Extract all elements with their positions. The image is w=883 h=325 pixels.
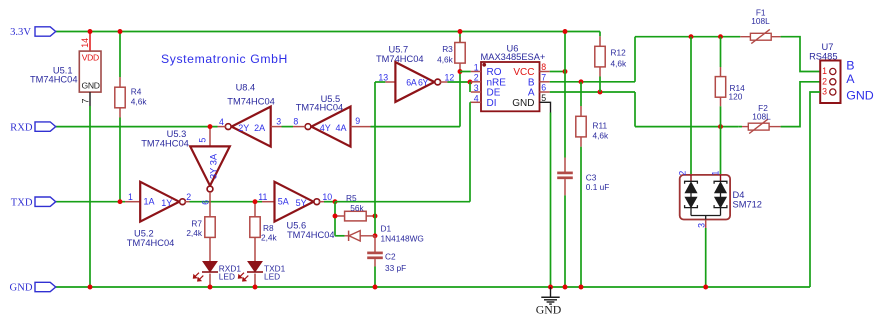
inverter U5.2 pin 2: [184, 201, 189, 203]
svg-text:1: 1: [474, 62, 479, 72]
wire R12 to A row: [599, 77, 601, 93]
resistor R4: [115, 87, 125, 108]
inverter U5.3 pin 6 to R7: [209, 192, 211, 217]
svg-text:C3: C3: [586, 172, 597, 182]
svg-text:2: 2: [186, 192, 191, 202]
wire A bottom line: [635, 126, 738, 128]
wire GND rail: [56, 286, 810, 288]
U6 pin 1 RO: [471, 71, 481, 73]
D4 common cathode bracket: [691, 215, 721, 217]
wire F1 to U7 pin1: [781, 37, 821, 72]
resistor R4 pins: [119, 77, 121, 87]
svg-text:U7: U7: [822, 42, 834, 52]
svg-text:6: 6: [200, 200, 210, 205]
capacitor C3: [557, 172, 573, 175]
inverter U5.6 pin 10: [319, 201, 324, 203]
svg-text:13: 13: [378, 73, 388, 83]
TVS diode pair at x=720.5: [714, 181, 727, 184]
svg-text:A: A: [846, 72, 855, 86]
wire R14 top: [720, 37, 722, 67]
resistor R11 pins: [580, 82, 582, 106]
port RXD: [35, 122, 56, 131]
wire U7 pin3 to GND rail: [810, 92, 820, 287]
resistor R5: [345, 211, 367, 221]
connector U7 box: [820, 61, 840, 104]
svg-text:R11: R11: [593, 120, 608, 130]
wire B row: [550, 81, 635, 83]
svg-text:2A: 2A: [254, 123, 265, 133]
U7 pin 3: [830, 89, 836, 95]
svg-text:LED: LED: [264, 272, 280, 282]
svg-text:4Y: 4Y: [320, 123, 331, 133]
svg-text:12: 12: [445, 73, 455, 83]
svg-text:U5.7: U5.7: [389, 44, 409, 54]
resistor R12 pins: [599, 32, 601, 37]
svg-text:9: 9: [355, 116, 360, 126]
resistor R7: [205, 217, 215, 238]
svg-text:0.1 uF: 0.1 uF: [586, 182, 610, 192]
U6 pin 8 VCC: [540, 71, 550, 73]
svg-text:C2: C2: [385, 251, 396, 261]
TVS diode pair at x=691: [685, 181, 698, 184]
svg-text:D4: D4: [733, 190, 745, 200]
inverter U5.3 (points down): [190, 146, 230, 185]
diode D1: [335, 235, 345, 237]
svg-text:5: 5: [541, 93, 546, 103]
port TXD: [35, 197, 56, 206]
power symbol U5.1 pin 7 GND: [89, 92, 91, 106]
svg-text:4A: 4A: [336, 123, 347, 133]
resistor R8: [250, 217, 260, 238]
wire C3 to GND: [564, 179, 566, 195]
svg-text:1: 1: [128, 192, 133, 202]
svg-text:VDD: VDD: [82, 53, 99, 63]
U6 pin 4 DI: [471, 101, 481, 103]
svg-text:1Y: 1Y: [161, 198, 172, 208]
svg-text:6: 6: [541, 83, 546, 93]
power symbol U5.1 body: [79, 51, 101, 92]
svg-text:4,6k: 4,6k: [131, 97, 148, 107]
svg-text:108L: 108L: [752, 112, 771, 122]
svg-text:TM74HC04: TM74HC04: [127, 238, 175, 248]
wire R11 to GND: [580, 147, 582, 287]
svg-text:11: 11: [258, 192, 267, 202]
svg-text:MAX3485ESA+: MAX3485ESA+: [481, 52, 546, 62]
capacitor C2 pin: [374, 236, 376, 253]
resistor R5 pins: [335, 215, 345, 217]
U6 pin 2 nRE: [471, 81, 481, 83]
svg-text:GND: GND: [82, 80, 100, 90]
wire A row: [550, 91, 635, 93]
wire D4 pin3 to GND: [705, 228, 707, 287]
wire U8.4 to U5.5: [282, 126, 294, 128]
wire U5.6 out to junction: [324, 201, 335, 203]
svg-text:R3: R3: [442, 44, 453, 54]
inverter U5.7 pin 12: [440, 81, 448, 83]
U6 pin 7 B: [540, 81, 550, 83]
wire U5.6out down to R5: [334, 202, 336, 236]
TVS D4 box: [680, 175, 730, 220]
fuse F2: [738, 126, 742, 128]
wire 3.3V rail: [56, 31, 600, 33]
svg-text:2Y: 2Y: [238, 123, 249, 133]
inverter U5.2: [140, 182, 179, 222]
resistor R7 to LED: [209, 237, 211, 261]
wire R4 to TXD: [119, 118, 121, 202]
wire D4 pin1 column: [720, 127, 722, 175]
wire LED RXD1 to GND: [209, 274, 211, 288]
wire VCC to 3.3V column: [550, 71, 565, 73]
wire U5.1 GND to rail: [89, 106, 91, 287]
svg-text:R12: R12: [611, 48, 627, 58]
svg-text:4,6k: 4,6k: [611, 58, 628, 68]
inverter U5.7 pin 13: [385, 81, 395, 83]
svg-text:R4: R4: [131, 86, 142, 96]
wire TXDD junction to DI corner: [335, 201, 470, 203]
wire R5 right column: [374, 82, 376, 216]
svg-text:TM74HC04: TM74HC04: [227, 97, 275, 107]
svg-text:LED: LED: [219, 272, 235, 282]
wire C2 to GND: [374, 259, 376, 266]
junction R3-RO: [458, 69, 463, 74]
inverter U5.5 pin 8: [293, 126, 306, 128]
svg-text:14: 14: [80, 38, 90, 48]
IC U6 box: [481, 62, 540, 111]
inverter U5.6 pin 11: [262, 201, 275, 203]
capacitor C2: [367, 252, 383, 255]
wire A to bottom line: [634, 92, 636, 127]
wire 3.3V to R4: [119, 32, 121, 78]
svg-text:TM74HC04: TM74HC04: [376, 54, 424, 64]
svg-text:TM74HC04: TM74HC04: [141, 139, 189, 149]
svg-text:7: 7: [541, 72, 546, 82]
wire DI down to TXDD net: [469, 101, 472, 103]
svg-text:4: 4: [219, 117, 224, 127]
svg-text:Systematronic GmbH: Systematronic GmbH: [161, 52, 288, 66]
svg-text:2: 2: [474, 73, 479, 83]
wire B to top line: [634, 37, 636, 82]
LED RXD1: [203, 262, 217, 272]
svg-text:U8.4: U8.4: [236, 82, 256, 92]
inverter U8.4 (points left): [232, 107, 271, 147]
svg-text:TM74HC04: TM74HC04: [287, 230, 335, 240]
resistor R8 pin: [254, 202, 256, 217]
svg-text:1: 1: [711, 171, 721, 176]
inverter U8.4 pin 3: [271, 126, 282, 128]
svg-text:4: 4: [474, 93, 479, 103]
U7 pin 2: [830, 79, 836, 85]
resistor R8 to LED: [254, 237, 256, 261]
wire U5.7 out to nRE: [448, 81, 472, 83]
svg-text:GND: GND: [512, 98, 534, 109]
svg-text:108L: 108L: [751, 16, 770, 26]
svg-text:1A: 1A: [144, 197, 155, 207]
svg-text:3: 3: [696, 223, 706, 228]
junction 3.3V at x90: [88, 29, 93, 34]
svg-text:2,4k: 2,4k: [186, 228, 203, 238]
svg-text:GND: GND: [536, 303, 562, 317]
wire pin9 to R3 column: [371, 126, 461, 128]
svg-text:RXD: RXD: [10, 122, 33, 133]
resistor R11: [576, 116, 586, 137]
svg-text:33 pF: 33 pF: [385, 263, 406, 273]
wire RXD: [56, 126, 218, 128]
svg-text:GND: GND: [10, 283, 33, 294]
fuse F1: [740, 36, 750, 38]
svg-text:TM74HC04: TM74HC04: [30, 75, 78, 85]
svg-text:B: B: [846, 59, 854, 73]
U6 pin 6 A: [540, 91, 550, 93]
wire U5.7 input from RC node: [375, 81, 385, 83]
power symbol U5.1 pin 14 VDD: [89, 32, 91, 52]
svg-text:GND: GND: [846, 89, 874, 103]
svg-text:4,6k: 4,6k: [593, 131, 610, 141]
wire U5.2 out: [190, 201, 263, 203]
svg-text:RS485: RS485: [809, 52, 837, 62]
capacitor C3 pin top: [564, 158, 566, 173]
inverter U5.5 pin 9: [351, 126, 371, 128]
svg-text:R5: R5: [346, 193, 357, 203]
wire nRE-DE tie: [469, 82, 471, 92]
svg-text:2,4k: 2,4k: [261, 232, 278, 242]
svg-text:5Y: 5Y: [296, 198, 307, 208]
inverter U5.5 (points left): [311, 107, 350, 147]
resistor R3 pins: [459, 32, 461, 43]
svg-text:3: 3: [822, 87, 827, 97]
wire LED TXD1 to GND: [254, 274, 256, 288]
wire TXD: [56, 201, 125, 203]
svg-text:3: 3: [276, 116, 281, 126]
svg-text:DI: DI: [487, 98, 497, 109]
port GND: [35, 282, 56, 291]
svg-text:3Y 3A: 3Y 3A: [209, 153, 219, 179]
ground symbol: [550, 287, 552, 297]
junction R5 right: [373, 214, 378, 219]
resistor R12: [595, 46, 605, 67]
svg-text:56k: 56k: [350, 203, 364, 213]
svg-text:SM712: SM712: [733, 200, 762, 210]
svg-text:3.3V: 3.3V: [10, 27, 31, 38]
svg-text:8: 8: [293, 116, 298, 126]
wire B top line: [635, 36, 740, 38]
LED TXD1: [248, 262, 262, 272]
svg-text:120: 120: [729, 91, 743, 101]
wire F2 to U7 pin2: [781, 82, 821, 127]
U7 pin 1: [830, 68, 836, 74]
svg-text:1: 1: [822, 66, 827, 76]
svg-text:2: 2: [822, 77, 827, 87]
svg-text:2: 2: [678, 171, 688, 176]
U6 pin 3 DE: [471, 91, 481, 93]
wire D4 pin2 column: [690, 37, 692, 175]
svg-text:10: 10: [322, 192, 332, 202]
svg-text:1N4148WG: 1N4148WG: [381, 234, 424, 244]
wire 3.3V column down to C3: [564, 32, 566, 158]
svg-text:D1: D1: [381, 224, 392, 234]
inverter U5.7: [395, 62, 434, 102]
wire U6 GND to rail: [550, 113, 552, 288]
inverter U5.6: [275, 182, 314, 222]
D4 pin 3: [705, 220, 707, 229]
inverter U5.2 pin 1: [125, 201, 140, 203]
U6 pin 5 GND: [540, 102, 551, 112]
svg-text:4,6k: 4,6k: [437, 55, 454, 65]
svg-text:3: 3: [474, 83, 479, 93]
inverter U8.4 pin 4: [218, 126, 227, 128]
svg-text:8: 8: [541, 62, 546, 72]
inverter U5.3 pin 5: [209, 127, 211, 147]
svg-text:5: 5: [198, 138, 208, 143]
resistor R3: [455, 43, 465, 64]
svg-text:7: 7: [80, 99, 90, 104]
svg-text:TXD: TXD: [11, 197, 33, 208]
wire RO to R3: [460, 71, 471, 73]
resistor R14: [715, 77, 725, 98]
svg-text:TM74HC04: TM74HC04: [296, 103, 344, 113]
wire R14 bottom: [720, 97, 722, 106]
svg-text:5A: 5A: [278, 197, 289, 207]
port 3.3V: [35, 27, 56, 36]
svg-text:6A 6Y: 6A 6Y: [406, 77, 428, 87]
